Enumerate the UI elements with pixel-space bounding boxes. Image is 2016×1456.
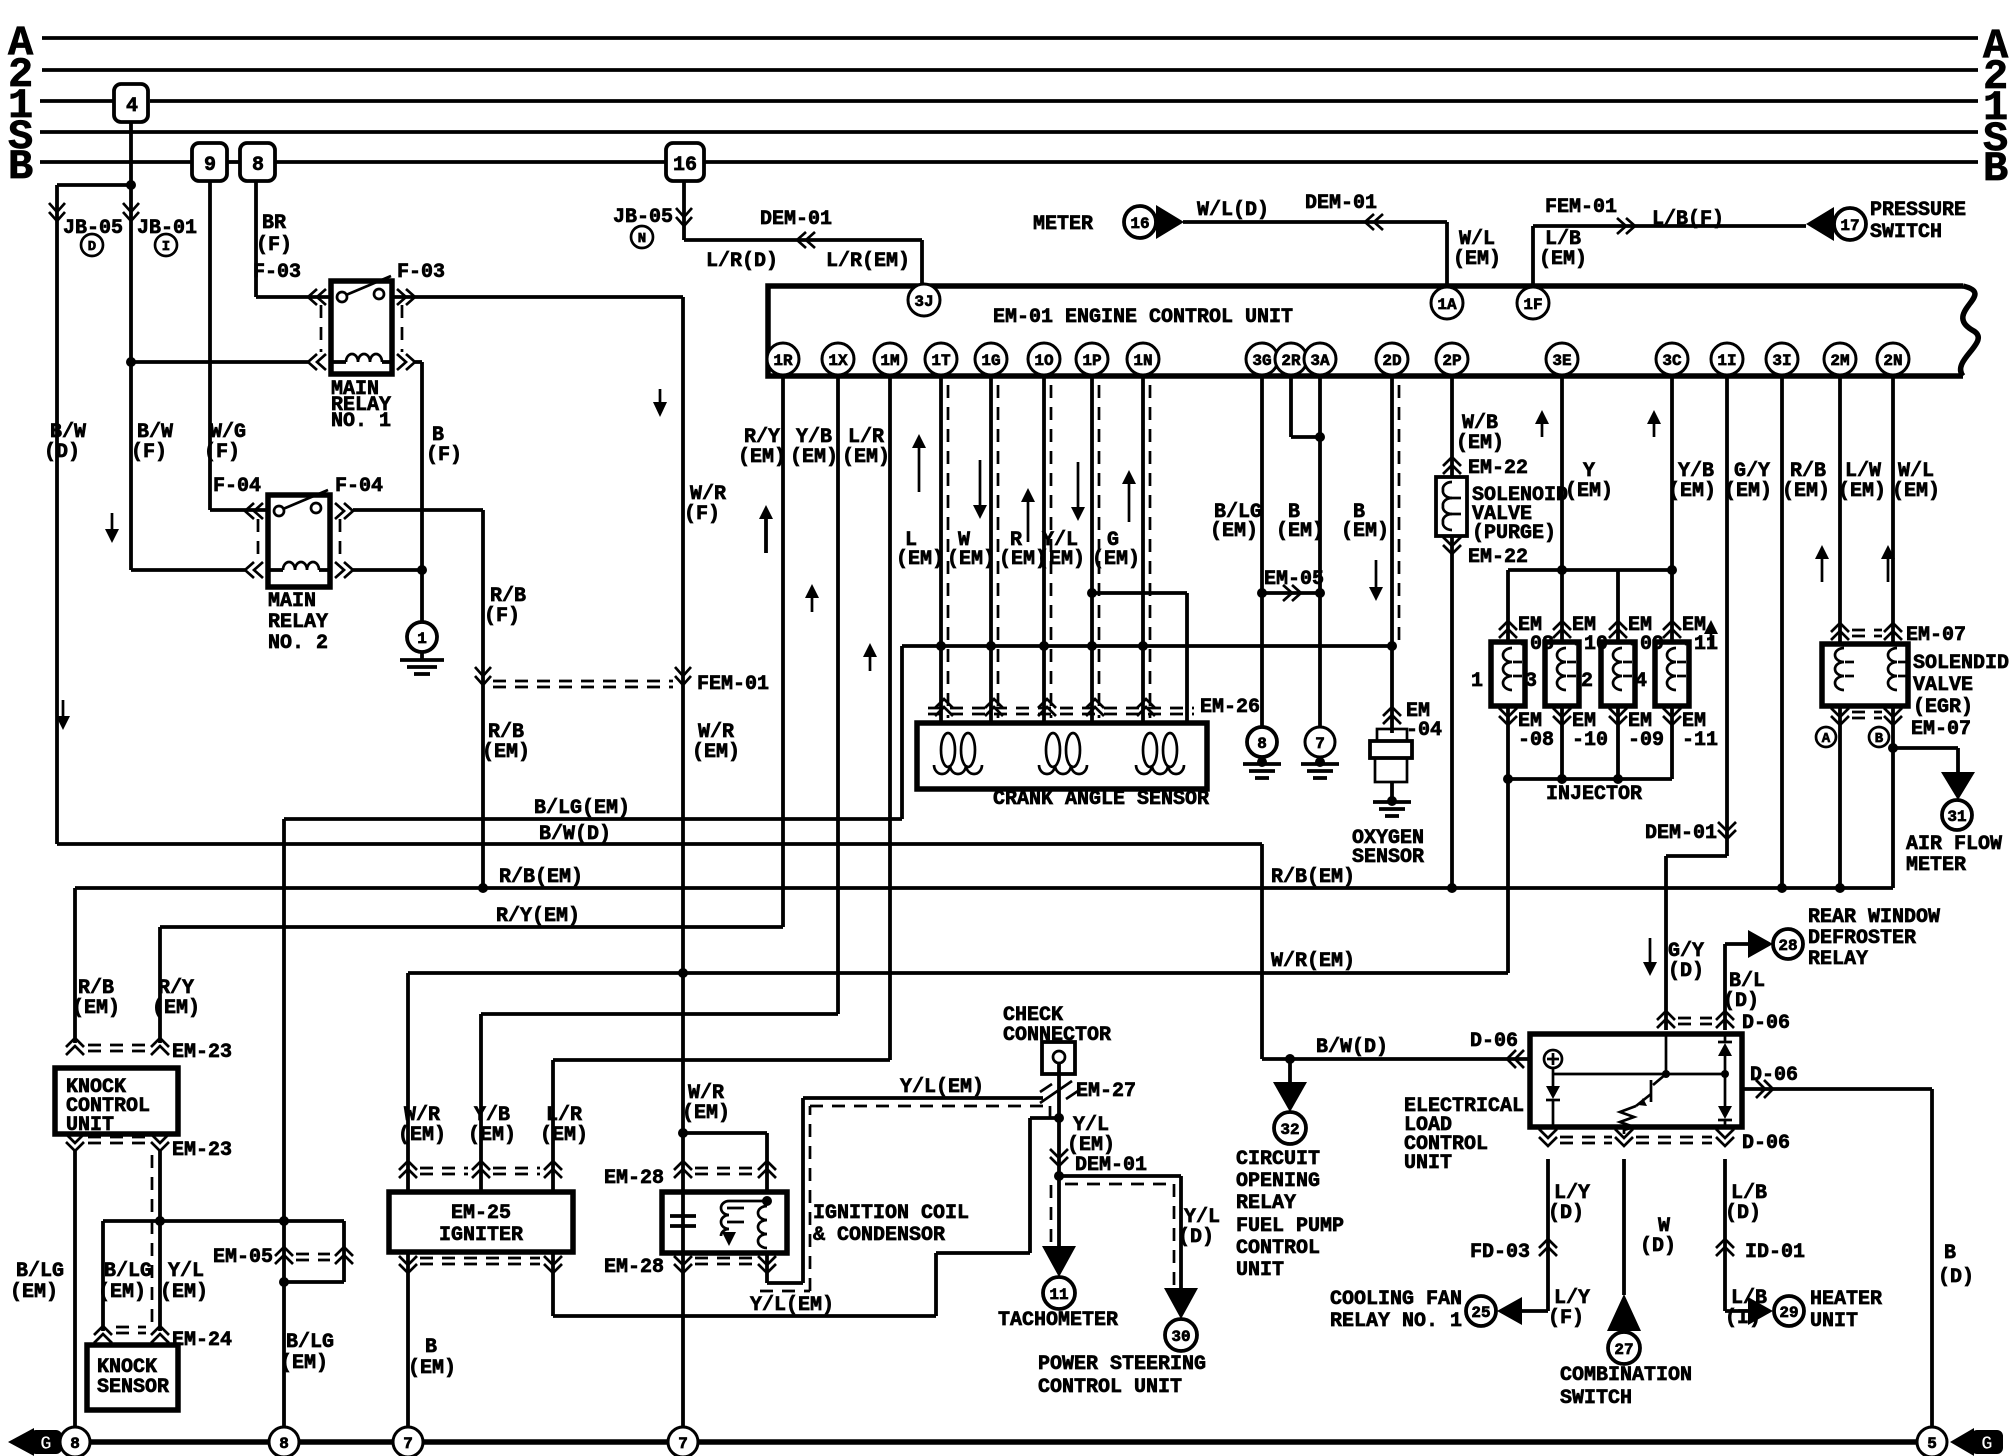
bus line B xyxy=(40,160,192,164)
svg-text:3J: 3J xyxy=(914,293,933,311)
arrow down near W/R xyxy=(659,389,662,404)
svg-text:(EM): (EM) xyxy=(947,548,995,571)
ECU pin 3G xyxy=(1246,343,1278,375)
meter arrow xyxy=(1156,205,1184,239)
svg-text:VALVE: VALVE xyxy=(1913,674,1973,697)
svg-text:(D): (D) xyxy=(1548,1202,1584,1225)
svg-text:(EM): (EM) xyxy=(398,1124,446,1147)
svg-text:7: 7 xyxy=(678,1435,688,1453)
svg-text:FEM-01: FEM-01 xyxy=(697,673,769,696)
pressure switch circle 17 xyxy=(1834,208,1866,240)
connector FD-03 chevron xyxy=(1539,1239,1557,1256)
svg-text:32: 32 xyxy=(1280,1121,1299,1139)
main relay no.1 box xyxy=(331,281,392,374)
svg-text:(D): (D) xyxy=(1725,1202,1761,1225)
wire Y/L(EM) pin 1P xyxy=(1090,375,1094,723)
connector DEM-01 chevron on meter wire xyxy=(1365,214,1383,230)
svg-text:F-03: F-03 xyxy=(397,261,445,284)
wire to heater unit xyxy=(1725,1309,1748,1313)
connector FEM-01 chevron xyxy=(1617,218,1635,234)
svg-text:REAR WINDOW: REAR WINDOW xyxy=(1808,906,1940,929)
svg-text:(EM): (EM) xyxy=(160,1281,208,1304)
junction dot 1P loop xyxy=(1087,588,1097,598)
arrow down G/Y xyxy=(1649,938,1652,962)
svg-text:DEM-01: DEM-01 xyxy=(760,208,832,231)
oxygen sensor body xyxy=(1377,729,1407,741)
svg-text:SENSOR: SENSOR xyxy=(1352,846,1424,869)
svg-text:DEM-01: DEM-01 xyxy=(1305,192,1377,215)
ECU pin 2R xyxy=(1275,343,1307,375)
connector DEM-01 chevron xyxy=(1718,822,1736,839)
wire B/W(D) vertical xyxy=(55,185,59,844)
svg-text:A: A xyxy=(1822,731,1831,747)
coil secondary xyxy=(758,1206,767,1248)
ground circle 8 xyxy=(1247,727,1277,757)
relay1 switch blade xyxy=(346,276,391,295)
svg-text:EM-28: EM-28 xyxy=(604,1256,664,1279)
svg-text:NO. 2: NO. 2 xyxy=(268,632,328,655)
ignition coil condensor box xyxy=(662,1192,787,1253)
svg-text:UNIT: UNIT xyxy=(66,1114,114,1137)
svg-text:JB-05: JB-05 xyxy=(63,217,123,240)
svg-text:3E: 3E xyxy=(1552,352,1571,370)
svg-text:16: 16 xyxy=(1130,215,1149,233)
relay2 coil xyxy=(283,562,319,570)
svg-text:COMBINATION: COMBINATION xyxy=(1560,1364,1692,1387)
svg-text:FEM-01: FEM-01 xyxy=(1545,196,1617,219)
wire W(EM) pin 1G xyxy=(989,375,993,723)
svg-text:-04: -04 xyxy=(1406,719,1442,742)
crank angle sensor box xyxy=(917,723,1207,789)
connector EM-08 chevron bottom xyxy=(1499,708,1517,725)
svg-text:-11: -11 xyxy=(1682,729,1718,752)
junction dot xyxy=(1777,883,1787,893)
svg-text:2: 2 xyxy=(1581,670,1593,693)
svg-text:EM-07: EM-07 xyxy=(1906,624,1966,647)
shield dashed knock xyxy=(151,1155,154,1325)
svg-text:NO. 1: NO. 1 xyxy=(331,410,391,433)
arrow up xyxy=(1128,482,1131,522)
ECU pin 1G xyxy=(975,343,1007,375)
svg-text:AIR FLOW: AIR FLOW xyxy=(1906,833,2002,856)
ECU right torn edge xyxy=(1961,286,1979,376)
svg-text:(EM): (EM) xyxy=(738,446,786,469)
arrow down near B/W(F) xyxy=(111,513,114,531)
ECU pin 2P xyxy=(1436,343,1468,375)
check connector box xyxy=(1042,1042,1075,1074)
svg-text:RELAY NO. 1: RELAY NO. 1 xyxy=(1330,1310,1462,1333)
connector EM-28 chevrons top xyxy=(674,1161,692,1178)
svg-text:(EM): (EM) xyxy=(692,741,740,764)
wire L/Y(D) xyxy=(1546,1159,1550,1311)
svg-text:INJECTOR: INJECTOR xyxy=(1546,783,1642,806)
ECU pin 3J xyxy=(908,284,940,316)
connector EM-07 chevrons top xyxy=(1831,623,1849,640)
R/B(EM) long line xyxy=(75,886,1893,890)
svg-text:(EM): (EM) xyxy=(1092,548,1140,571)
injector 2 bottom wire xyxy=(1616,706,1620,779)
svg-text:D-06: D-06 xyxy=(1742,1132,1790,1155)
svg-text:(EM): (EM) xyxy=(896,548,944,571)
svg-text:METER: METER xyxy=(1906,854,1966,877)
junction dot xyxy=(126,180,136,190)
svg-text:G: G xyxy=(1981,1433,1992,1455)
arrow down 2D xyxy=(1375,560,1378,587)
injector bottom rail xyxy=(1508,777,1672,781)
injector 4 coil xyxy=(1667,648,1676,690)
bottom ground rail xyxy=(58,1439,1917,1445)
svg-text:SWITCH: SWITCH xyxy=(1560,1387,1632,1410)
svg-text:27: 27 xyxy=(1614,1341,1633,1359)
W/R(EM) long line xyxy=(408,971,1508,975)
wire G/Y(EM) pin 1I xyxy=(1725,375,1729,856)
main relay no.2 box xyxy=(268,495,330,587)
ground symbol xyxy=(420,652,424,660)
wire EGR A down xyxy=(1838,706,1842,888)
svg-text:(F): (F) xyxy=(1548,1307,1584,1330)
connector EM-09 chevron bottom xyxy=(1609,708,1627,725)
svg-text:R/B(EM): R/B(EM) xyxy=(499,866,583,889)
svg-text:EM-07: EM-07 xyxy=(1911,718,1971,741)
wire Y/B(EM) horizontal xyxy=(481,1012,838,1016)
svg-text:9: 9 xyxy=(204,154,216,177)
connector EM-26 chevron xyxy=(1137,699,1155,716)
svg-text:3G: 3G xyxy=(1252,352,1271,370)
bottom circle 5 xyxy=(1917,1427,1947,1456)
svg-text:BR: BR xyxy=(262,212,286,235)
igniter wires into box xyxy=(406,1164,410,1192)
svg-text:B: B xyxy=(1875,731,1884,747)
svg-text:CRANK ANGLE SENSOR: CRANK ANGLE SENSOR xyxy=(993,788,1209,811)
ECU pin 1A xyxy=(1431,287,1463,319)
relay2 switch blade xyxy=(283,490,328,509)
bus line B mid segment xyxy=(227,160,240,164)
connector igniter chevrons top xyxy=(399,1161,417,1178)
crank sensor coil xyxy=(1046,733,1060,767)
svg-text:(D): (D) xyxy=(1640,1235,1676,1258)
svg-text:(EM): (EM) xyxy=(152,997,200,1020)
connector EM-08 chevron top xyxy=(1499,621,1517,638)
knock control unit box xyxy=(55,1068,178,1134)
shield dashed Y/L xyxy=(760,1106,1050,1291)
arrow up 1I xyxy=(1710,632,1713,649)
relay1 switch contact left xyxy=(337,292,347,302)
connector EM-10 chevron top xyxy=(1553,621,1571,638)
svg-text:(EM): (EM) xyxy=(1456,432,1504,455)
svg-text:(D): (D) xyxy=(1178,1226,1214,1249)
junction dot W/R xyxy=(678,968,688,978)
svg-text:8: 8 xyxy=(1257,735,1267,753)
svg-text:(PURGE): (PURGE) xyxy=(1472,522,1556,545)
bus line B far right segment xyxy=(704,160,1978,164)
svg-text:(F): (F) xyxy=(484,605,520,628)
ELCU diode left xyxy=(1546,1086,1560,1099)
junction dot xyxy=(1503,774,1513,784)
svg-text:EM-23: EM-23 xyxy=(172,1139,232,1162)
power steering circle 30 xyxy=(1165,1319,1197,1351)
bus line 1 right part xyxy=(150,99,1978,103)
wire R/B(F) vertical xyxy=(481,510,485,888)
solenoid valve EGR box xyxy=(1822,644,1908,706)
svg-text:W/L(D): W/L(D) xyxy=(1197,199,1269,222)
wire B/L defroster xyxy=(1723,944,1727,1030)
wire B/W(F) vertical xyxy=(129,185,133,570)
svg-text:B/LG: B/LG xyxy=(286,1331,334,1354)
svg-text:(EM): (EM) xyxy=(1724,480,1772,503)
wire conn16 down xyxy=(682,181,686,240)
svg-text:EM-28: EM-28 xyxy=(604,1167,664,1190)
svg-text:B/LG(EM): B/LG(EM) xyxy=(534,797,630,820)
ECU pin 1O xyxy=(1028,343,1060,375)
bus line 2 xyxy=(42,68,1978,72)
ELCU transistor xyxy=(1665,1034,1668,1074)
svg-text:(F): (F) xyxy=(684,503,720,526)
ground circle 7 xyxy=(1305,727,1335,757)
wire B(EM) pin 3A xyxy=(1318,375,1322,727)
svg-text:L/R(EM): L/R(EM) xyxy=(826,250,910,273)
svg-text:B/W(D): B/W(D) xyxy=(539,823,611,846)
circled A xyxy=(1816,727,1836,747)
svg-text:B/LG: B/LG xyxy=(16,1260,64,1283)
svg-text:EM-05: EM-05 xyxy=(213,1246,273,1269)
ground flag G left xyxy=(8,1428,34,1456)
svg-text:B: B xyxy=(425,1336,437,1359)
svg-text:4: 4 xyxy=(126,95,138,118)
svg-text:HEATER: HEATER xyxy=(1810,1288,1882,1311)
combination switch arrow xyxy=(1607,1294,1641,1331)
svg-text:D: D xyxy=(88,239,96,255)
relay2 switch contact right xyxy=(311,503,321,513)
wire Y/B(EM) pin 3C xyxy=(1670,375,1674,642)
svg-text:EM-22: EM-22 xyxy=(1468,546,1528,569)
svg-text:IGNITER: IGNITER xyxy=(439,1224,523,1247)
svg-text:2D: 2D xyxy=(1382,352,1401,370)
ECU pin 1N xyxy=(1127,343,1159,375)
wire Y(EM) pin 3E xyxy=(1560,375,1564,570)
svg-text:IGNITION COIL: IGNITION COIL xyxy=(813,1202,969,1225)
svg-text:(F): (F) xyxy=(426,444,462,467)
injector 2 coil xyxy=(1613,648,1622,690)
svg-text:-08: -08 xyxy=(1518,729,1554,752)
connector EM-26 dashed line xyxy=(928,707,1194,710)
tachometer arrow xyxy=(1042,1246,1076,1277)
connector JB-05 chevron right xyxy=(676,208,692,226)
wire L/R(EM) pin 1M xyxy=(888,375,892,1060)
ECU pin 1I xyxy=(1711,343,1743,375)
svg-text:-09: -09 xyxy=(1628,729,1664,752)
wire L(EM) pin 1T xyxy=(939,375,943,723)
svg-text:CONTROL UNIT: CONTROL UNIT xyxy=(1038,1376,1182,1399)
wire B(EM) pin 2D xyxy=(1390,375,1394,733)
svg-text:(EM): (EM) xyxy=(1668,480,1716,503)
svg-text:3A: 3A xyxy=(1310,352,1330,370)
svg-text:1X: 1X xyxy=(828,352,848,370)
ECU pin 2D xyxy=(1376,343,1408,375)
air flow meter arrow xyxy=(1941,772,1975,800)
B/W(D) long line xyxy=(57,842,1262,846)
wire W/L(EM) pin 2N xyxy=(1891,375,1895,644)
svg-text:30: 30 xyxy=(1171,1328,1190,1346)
wire L/W(EM) pin 2M xyxy=(1838,375,1842,644)
svg-text:1F: 1F xyxy=(1523,296,1542,314)
ELCU resistor xyxy=(1620,1106,1636,1134)
wire G(EM) pin 1N xyxy=(1141,375,1145,723)
EGR coil right xyxy=(1888,648,1897,690)
connector EM-23 chevrons top xyxy=(66,1038,84,1055)
wire igniter Y/L out xyxy=(551,1252,555,1316)
wire injector return down xyxy=(1506,779,1510,973)
svg-text:SENSOR: SENSOR xyxy=(97,1376,169,1399)
injector top rail xyxy=(1508,568,1672,572)
connector FEM-01 link xyxy=(475,667,491,685)
arrow up 2M xyxy=(1821,557,1824,582)
ECU pin 1M xyxy=(874,343,906,375)
svg-text:(EM): (EM) xyxy=(98,1281,146,1304)
svg-text:SOLENDID: SOLENDID xyxy=(1913,652,2009,675)
svg-text:EM-25: EM-25 xyxy=(451,1202,511,1225)
svg-text:(EM): (EM) xyxy=(1892,480,1940,503)
connector EM-04 chevron xyxy=(1383,707,1401,724)
svg-text:F-03: F-03 xyxy=(253,261,301,284)
junction dot R/B relay2 xyxy=(478,883,488,893)
svg-text:SWITCH: SWITCH xyxy=(1870,221,1942,244)
connector EM-10 chevron bottom xyxy=(1553,708,1571,725)
wire R/Y(EM) pin 1R xyxy=(781,375,785,927)
svg-text:ID-01: ID-01 xyxy=(1745,1241,1805,1264)
ECU pin 1P xyxy=(1076,343,1108,375)
connector EM-28 chevrons bottom xyxy=(674,1256,692,1273)
connector EM-05 knock chevrons xyxy=(275,1247,293,1264)
svg-text:DEM-01: DEM-01 xyxy=(1645,822,1717,845)
injector 3 bottom wire xyxy=(1560,706,1564,779)
bus line B right segment xyxy=(275,160,666,164)
svg-text:29: 29 xyxy=(1779,1304,1798,1322)
junction dot xyxy=(1087,641,1097,651)
ELCU internal bus xyxy=(1552,1068,1555,1080)
svg-text:1G: 1G xyxy=(981,352,1000,370)
svg-text:CIRCUIT: CIRCUIT xyxy=(1236,1148,1320,1171)
meter circle 16 xyxy=(1124,206,1156,238)
wire BR from connector 8 xyxy=(254,181,258,297)
svg-text:L/R(D): L/R(D) xyxy=(706,250,778,273)
cooling fan arrow xyxy=(1497,1297,1522,1325)
connector D-06 chevron left xyxy=(1507,1050,1524,1068)
relay1 coil xyxy=(346,354,382,362)
svg-text:(EM): (EM) xyxy=(482,741,530,764)
bus line A xyxy=(42,36,1978,40)
injector 4 box xyxy=(1655,642,1689,706)
svg-text:(EM): (EM) xyxy=(1037,548,1085,571)
svg-text:DEM-01: DEM-01 xyxy=(1075,1154,1147,1177)
connector 16 box xyxy=(666,143,704,181)
svg-text:B/LG: B/LG xyxy=(104,1260,152,1283)
svg-text:8: 8 xyxy=(70,1435,80,1453)
connector EM-26 chevron xyxy=(1038,699,1056,716)
wire BR to relay1 xyxy=(256,295,331,299)
svg-text:1A: 1A xyxy=(1437,296,1457,314)
svg-text:17: 17 xyxy=(1840,217,1859,235)
svg-text:1: 1 xyxy=(1471,670,1483,693)
ECU pin 1X xyxy=(822,343,854,375)
wire EGR B down xyxy=(1891,706,1895,888)
wire relay2 coil left feed xyxy=(131,568,245,572)
svg-text:7: 7 xyxy=(403,1435,413,1453)
bus line 1 xyxy=(40,99,113,103)
injector 4 bottom wire xyxy=(1670,706,1674,779)
wire W/B(EM) pin 2P xyxy=(1450,375,1454,477)
knock link line xyxy=(103,1219,344,1223)
svg-text:2N: 2N xyxy=(1883,352,1902,370)
svg-text:(EM): (EM) xyxy=(1453,248,1501,271)
circled N xyxy=(631,226,653,248)
svg-text:3I: 3I xyxy=(1772,352,1791,370)
EGR coil left xyxy=(1835,648,1844,690)
svg-text:B/W(D): B/W(D) xyxy=(1316,1036,1388,1059)
wire B(EM) pin 2R xyxy=(1289,375,1293,437)
junction dot DEM xyxy=(1054,1171,1064,1181)
junction dot B/W xyxy=(1285,1054,1295,1064)
svg-text:FD-03: FD-03 xyxy=(1470,1241,1530,1264)
svg-text:(D): (D) xyxy=(1668,960,1704,983)
junction dot Y/L xyxy=(1054,1113,1064,1123)
crank sensor coil xyxy=(1143,733,1157,767)
svg-text:(F): (F) xyxy=(204,441,240,464)
wire L/B(D) xyxy=(1723,1159,1727,1311)
svg-text:EM-01 ENGINE CONTROL UNIT: EM-01 ENGINE CONTROL UNIT xyxy=(993,306,1293,329)
wire B/LG(EM) pin 3G xyxy=(1260,375,1264,727)
ELCU plus terminal xyxy=(1544,1050,1562,1068)
ground symbol xyxy=(1260,757,1264,763)
oxygen ground xyxy=(1390,782,1394,801)
svg-text:(EM): (EM) xyxy=(408,1357,456,1380)
svg-text:B: B xyxy=(1983,145,2008,193)
electrical load control unit box xyxy=(1530,1034,1742,1127)
svg-text:(EM): (EM) xyxy=(72,997,120,1020)
bottom circle 7 right xyxy=(668,1427,698,1456)
junction dot W/B xyxy=(1447,883,1457,893)
svg-text:(EM): (EM) xyxy=(540,1124,588,1147)
junction dot xyxy=(1387,641,1397,651)
arrow up 1R xyxy=(764,517,768,553)
junction dot xyxy=(1315,432,1325,442)
circuit opening relay arrow xyxy=(1288,1059,1292,1083)
junction dot xyxy=(1667,565,1677,575)
svg-text:EM-26: EM-26 xyxy=(1200,696,1260,719)
svg-text:31: 31 xyxy=(1947,808,1966,826)
heater circle 29 xyxy=(1774,1296,1804,1326)
svg-text:EM-27: EM-27 xyxy=(1076,1080,1136,1103)
svg-text:(EM): (EM) xyxy=(1539,248,1587,271)
connector D-06 chevron right xyxy=(1756,1080,1773,1098)
wire G/Y jog xyxy=(1666,854,1727,858)
junction dot internal xyxy=(1662,1070,1670,1078)
arrow up 3C xyxy=(1653,422,1656,437)
svg-text:UNIT: UNIT xyxy=(1236,1259,1284,1282)
svg-text:3: 3 xyxy=(1525,670,1537,693)
METER wire xyxy=(1183,220,1447,224)
connector DEM-01 chevron xyxy=(797,232,815,248)
ECU pin 2M xyxy=(1824,343,1856,375)
connector igniter chevrons bottom xyxy=(399,1256,417,1273)
solenoid valve purge box xyxy=(1436,477,1467,536)
svg-text:2R: 2R xyxy=(1281,352,1301,370)
svg-text:16: 16 xyxy=(673,154,697,177)
svg-text:Y/L: Y/L xyxy=(168,1260,204,1283)
defroster arrow xyxy=(1748,930,1773,958)
bottom circle 7 left xyxy=(393,1427,423,1456)
wire Y/L(EM) kcu down xyxy=(158,1150,162,1331)
ground circle 1 xyxy=(407,622,437,652)
